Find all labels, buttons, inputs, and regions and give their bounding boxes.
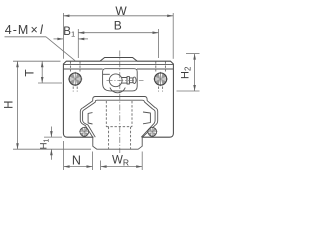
svg-text:T: T (23, 69, 37, 77)
svg-text:N: N (72, 153, 81, 167)
svg-text:B: B (114, 19, 122, 33)
svg-text:H: H (4, 101, 16, 109)
svg-text:W: W (115, 4, 127, 18)
svg-text:4-M×l: 4-M×l (5, 23, 44, 37)
